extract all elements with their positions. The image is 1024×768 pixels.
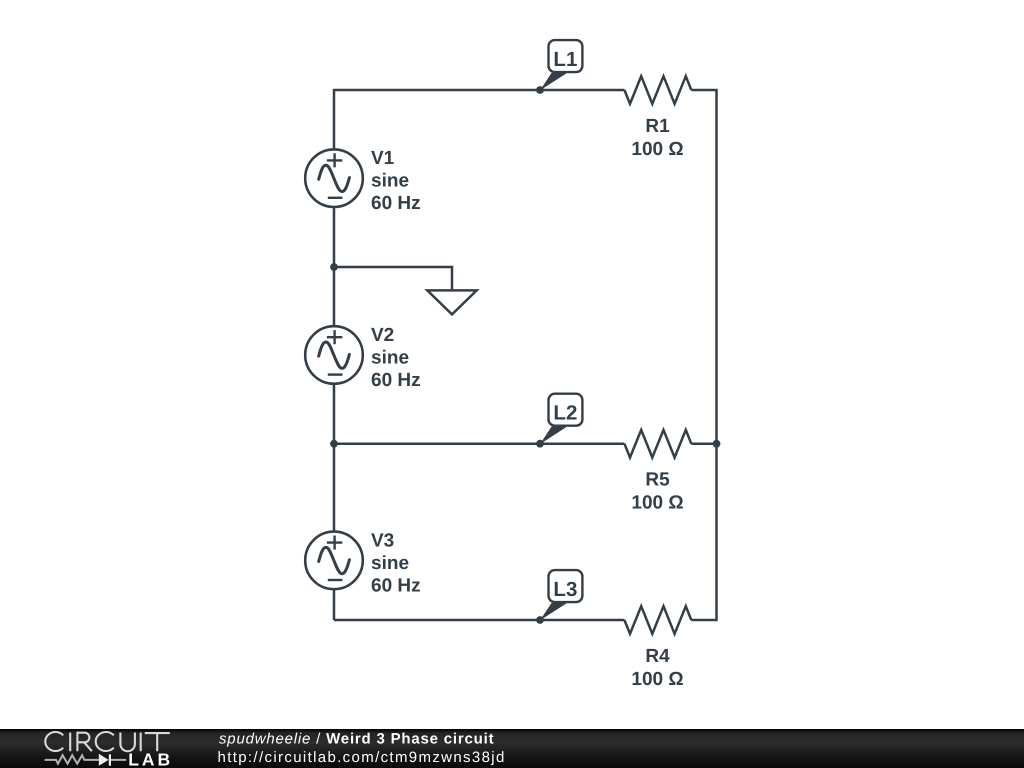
wire bottom rail: corner to R4 left lead [334,619,624,622]
footer bar [0,729,1024,768]
svg-text:R5: R5 [645,470,670,491]
value label R1 100 ohm [631,116,683,160]
svg-text:R1: R1 [645,116,670,137]
CircuitLab logo resistor-diode squiggle [45,754,127,765]
CircuitLab logo diode triangle [99,754,109,766]
svg-text:60 Hz: 60 Hz [371,575,421,596]
wire V1 bottom to V2 top [333,207,336,326]
svg-text:L2: L2 [553,402,577,425]
svg-text:60 Hz: 60 Hz [371,370,421,391]
node junction right rail / R5 [713,440,721,448]
resistor R1 [624,76,691,104]
wire right rail: R1 right lead, down to R4 right lead [691,90,716,620]
svg-text:R4: R4 [645,646,670,667]
label V2 sine 60 Hz [371,325,421,391]
svg-text:V1: V1 [371,148,395,169]
net label L3 [536,570,582,624]
svg-text:sine: sine [371,348,409,369]
net label L1 [536,40,582,94]
value label R4 100 ohm [631,646,683,690]
svg-text:sine: sine [371,553,409,574]
label V3 sine 60 Hz [371,530,421,596]
value label R5 100 ohm [631,470,683,514]
svg-text:http://circuitlab.com/ctm9mzwn: http://circuitlab.com/ctm9mzwns38jd [218,749,506,766]
svg-text:LAB: LAB [128,750,173,768]
svg-text:100 Ω: 100 Ω [631,493,683,514]
resistor R5 [624,430,691,458]
svg-text:L3: L3 [553,578,577,601]
svg-text:V3: V3 [371,530,394,551]
CircuitLab logo CIRCUIT wordmark [45,732,170,751]
svg-text:100 Ω: 100 Ω [631,139,683,160]
wire ground branch [334,267,452,290]
svg-text:60 Hz: 60 Hz [371,193,421,214]
wire top rail: V1 top to R1 left lead [334,90,624,149]
net label L2 [536,394,582,448]
svg-text:V2: V2 [371,325,394,346]
wire R5 right lead to right rail [691,442,716,445]
svg-text:100 Ω: 100 Ω [631,669,683,690]
resistor R4 [624,606,691,634]
node junction V1-V2 / ground [330,263,338,271]
voltage source V2 [305,326,363,384]
svg-text:L1: L1 [553,48,577,71]
label V1 sine 60 Hz [371,148,421,214]
wire V2 bottom to V3 top [333,384,336,532]
voltage source V1 [305,149,363,207]
voltage source V3 [305,532,363,590]
ground [427,290,476,314]
svg-text:sine: sine [371,171,409,192]
node junction V2-V3 / middle rail [330,440,338,448]
wire V3 bottom to bottom rail [333,589,336,620]
wire middle rail: node to R5 left lead [334,442,624,445]
svg-text:spudwheelie / Weird 3 Phase ci: spudwheelie / Weird 3 Phase circuit [219,731,494,748]
